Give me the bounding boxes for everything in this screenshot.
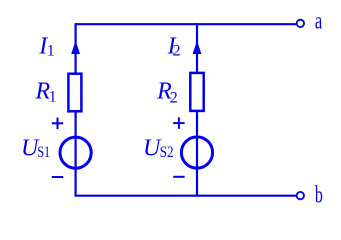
svg-text:S1: S1 xyxy=(37,144,50,161)
wire: right branch upper segment (top bus to R2) xyxy=(196,23,198,73)
svg-text:2: 2 xyxy=(170,89,178,106)
svg-text:1: 1 xyxy=(47,43,55,60)
US1 minus sign xyxy=(52,176,63,178)
US2 minus sign xyxy=(173,176,184,178)
svg-text:S2: S2 xyxy=(160,144,174,161)
resistor label R2 xyxy=(156,79,178,107)
wire: right branch lower segment (R2 through source to bottom bus) xyxy=(196,111,198,197)
voltage source US1 xyxy=(60,137,91,168)
current label I2 xyxy=(167,33,181,59)
current label I1 xyxy=(38,33,54,59)
wire: top bus from node between branches to terminal a xyxy=(75,23,297,25)
wire: left branch upper segment (top bus to R1) xyxy=(74,23,76,74)
svg-text:b: b xyxy=(315,183,323,209)
resistor R2 xyxy=(190,73,203,111)
wire: left branch lower segment (R1 through source to bottom bus) xyxy=(74,111,76,196)
US2 plus sign xyxy=(173,117,184,128)
source label US2 xyxy=(143,136,174,162)
current arrow I1 xyxy=(71,41,80,55)
wire: bottom bus from left branch to terminal b xyxy=(75,195,297,197)
svg-text:a: a xyxy=(315,9,323,35)
svg-text:1: 1 xyxy=(49,89,57,106)
terminal a xyxy=(297,20,304,27)
resistor R1 xyxy=(68,74,81,112)
svg-text:2: 2 xyxy=(173,43,181,60)
source label US1 xyxy=(21,136,50,162)
voltage source US2 xyxy=(181,137,212,168)
resistor label R1 xyxy=(35,79,57,106)
US1 plus sign xyxy=(52,118,63,129)
terminal b xyxy=(297,192,304,199)
current arrow I2 xyxy=(193,41,202,55)
